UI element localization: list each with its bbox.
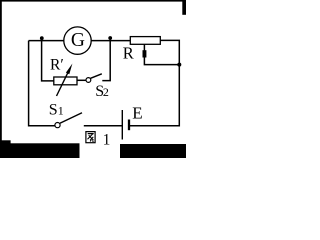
svg-text:R: R xyxy=(123,44,134,63)
svg-text:R′: R′ xyxy=(50,56,64,73)
svg-text:2: 2 xyxy=(103,85,109,99)
svg-text:G: G xyxy=(71,30,85,51)
svg-text:S: S xyxy=(49,102,58,119)
svg-text:E: E xyxy=(132,104,142,123)
svg-text:1: 1 xyxy=(103,131,111,148)
svg-text:1: 1 xyxy=(58,104,64,118)
